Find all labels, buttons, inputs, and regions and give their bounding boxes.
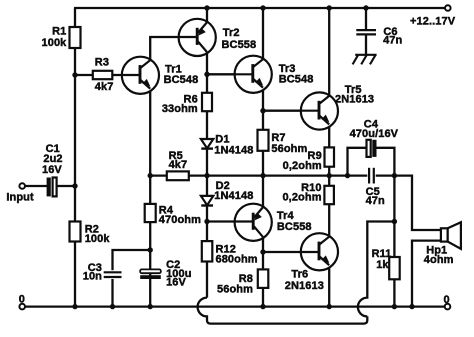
svg-text:+12..17V: +12..17V xyxy=(410,15,456,27)
svg-text:680ohm: 680ohm xyxy=(216,254,258,266)
svg-text:R1: R1 xyxy=(52,26,66,38)
resistor R4 xyxy=(145,204,156,222)
diode D2 1N4148 xyxy=(201,196,213,206)
transistor Tr5 2N1613 xyxy=(301,92,338,129)
resistor R5 xyxy=(167,171,189,180)
ground xyxy=(353,55,377,65)
wire Tr1 collector up and right to Tr2 base xyxy=(150,37,179,60)
svg-text:0: 0 xyxy=(444,294,450,306)
svg-text:0,2ohm: 0,2ohm xyxy=(282,192,321,204)
svg-text:100k: 100k xyxy=(85,233,111,245)
svg-text:56ohm: 56ohm xyxy=(271,143,307,155)
svg-text:1N4148: 1N4148 xyxy=(214,190,253,202)
transistor Tr4 BC558 xyxy=(235,204,272,241)
wire left column R1/R2 xyxy=(74,8,76,307)
wire left hop under rail xyxy=(198,298,368,324)
wire Tr6 base xyxy=(263,251,302,253)
wire input to C1 xyxy=(25,185,47,187)
svg-text:Tr6: Tr6 xyxy=(291,269,308,281)
transistor Tr6 2N1613 xyxy=(301,233,338,270)
wire R4 column down to C2 and rail xyxy=(149,176,151,307)
terminal input xyxy=(19,183,25,189)
svg-text:0,2ohm: 0,2ohm xyxy=(283,160,322,172)
svg-text:470ohm: 470ohm xyxy=(159,214,201,226)
wire C3 branch xyxy=(113,250,151,307)
capacitor C1 xyxy=(47,178,57,197)
resistor R12 xyxy=(202,241,213,261)
wire Tr2 collector node to Tr3 base xyxy=(207,73,235,75)
wire C6 branch xyxy=(365,8,367,30)
svg-text:470u/16V: 470u/16V xyxy=(350,128,399,140)
node dots xyxy=(204,5,209,10)
transistor Tr1 BC548 xyxy=(122,57,159,94)
svg-text:4k7: 4k7 xyxy=(95,81,114,93)
svg-text:4k7: 4k7 xyxy=(169,159,188,171)
terminal 0V left xyxy=(19,304,25,310)
wire Tr4 column mid line to Tr6 base node to rail xyxy=(262,176,264,307)
wire Tr5 emitter down R9 R10 column xyxy=(328,121,330,237)
svg-text:33ohm: 33ohm xyxy=(162,103,198,115)
svg-text:2N1613: 2N1613 xyxy=(285,280,324,292)
wire Tr4 base from D column xyxy=(207,220,235,222)
svg-text:1k: 1k xyxy=(376,259,389,271)
wire Tr2 collector down D column xyxy=(206,52,208,298)
resistor R3 xyxy=(93,71,113,79)
wire Tr5 collector to rail xyxy=(328,8,330,96)
transistor Tr2 BC558 xyxy=(179,19,216,56)
wire Tr1 emitter down to mid line xyxy=(149,86,151,176)
svg-text:1N4148: 1N4148 xyxy=(214,145,253,157)
svg-text:Tr2: Tr2 xyxy=(223,27,240,39)
svg-text:BC548: BC548 xyxy=(279,73,314,85)
svg-text:16V: 16V xyxy=(42,164,62,176)
svg-text:R3: R3 xyxy=(95,56,109,68)
wire Tr5 base xyxy=(263,110,302,112)
wire Tr3 collector to rail xyxy=(262,8,264,60)
resistor R1 xyxy=(70,27,81,48)
wire right hop and up to R11 node xyxy=(358,222,395,317)
wire mid line left segment xyxy=(150,174,369,176)
wire R3 branch to Tr1 base xyxy=(75,74,122,76)
diode D1 1N4148 xyxy=(201,139,213,149)
resistor R10 xyxy=(324,186,334,204)
wire bottom 0V rail xyxy=(25,305,445,307)
svg-text:100k: 100k xyxy=(42,37,68,49)
resistor R9 xyxy=(325,147,335,166)
resistor R8 xyxy=(258,269,269,288)
wire Tr2 emitter to rail xyxy=(206,8,208,23)
svg-text:BC558: BC558 xyxy=(222,39,257,51)
wire C6 to ground xyxy=(365,35,367,55)
svg-text:D1: D1 xyxy=(215,133,229,145)
svg-text:BC558: BC558 xyxy=(277,221,312,233)
wire mid line right segment to speaker column xyxy=(374,176,442,230)
svg-text:47n: 47n xyxy=(366,195,385,207)
capacitor C5 xyxy=(367,168,375,184)
wire C4 left tap xyxy=(348,148,367,176)
capacitor C4 xyxy=(367,140,377,157)
capacitor C2 xyxy=(140,269,161,279)
capacitor C3 xyxy=(104,270,122,279)
svg-text:10n: 10n xyxy=(83,270,102,282)
wire Tr3 emitter down R7 column xyxy=(262,85,264,176)
svg-text:56ohm: 56ohm xyxy=(217,283,253,295)
terminal 0V right xyxy=(445,304,451,310)
wire R11 column xyxy=(393,176,395,307)
svg-text:4ohm: 4ohm xyxy=(424,254,454,266)
svg-text:2N1613: 2N1613 xyxy=(335,93,374,105)
speaker Hp1 xyxy=(441,222,461,249)
wire C4 right side down xyxy=(376,148,394,176)
wire C1 to left column xyxy=(56,185,75,187)
resistor R6 xyxy=(202,93,212,111)
wire top supply rail xyxy=(74,7,445,9)
svg-text:0: 0 xyxy=(19,293,25,305)
wire Tr6 emitter to rail xyxy=(328,262,330,307)
capacitor C6 xyxy=(356,30,376,34)
transistor Tr3 BC548 xyxy=(235,56,272,93)
svg-text:47n: 47n xyxy=(383,35,402,47)
resistor R7 xyxy=(258,130,269,151)
wire speaker return xyxy=(412,241,441,307)
svg-text:16V: 16V xyxy=(166,277,186,289)
terminal +V xyxy=(445,5,451,11)
resistor R2 xyxy=(70,222,81,242)
svg-text:Input: Input xyxy=(6,191,34,203)
svg-text:BC548: BC548 xyxy=(164,74,199,86)
resistor R11 xyxy=(389,257,400,279)
